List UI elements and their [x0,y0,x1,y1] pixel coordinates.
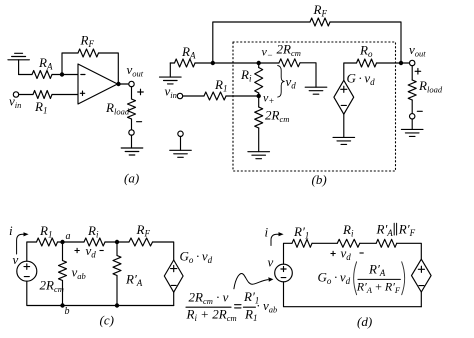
big parenthesis right (d equation) [402,262,405,295]
node v+ [257,94,261,98]
resistor R_F [78,49,99,57]
wire R'_1 to R_i [312,242,337,244]
wire R_o left to dependent source [344,63,357,80]
svg-text:RF: RF [136,222,151,239]
svg-text:R1: R1 [39,223,52,240]
svg-text:2Rcm: 2Rcm [277,42,301,59]
wire feedback riser to R_F [213,22,310,63]
svg-text:· vab: · vab [257,298,278,315]
svg-text:R1: R1 [214,77,227,94]
fraction bar (d equation) [358,278,401,280]
svg-text:2Rcm: 2Rcm [265,108,289,125]
svg-text:a: a [66,231,71,242]
svg-text:v+: v+ [263,91,274,107]
terminal (bottom of R_load b) [410,114,415,119]
resistor R_load [408,80,416,100]
dependent source (d diamond) [412,259,432,292]
svg-text:R′F: R′F [398,222,416,239]
dependent source G_o*v_d (c diamond) [164,260,183,292]
wire v_in to R_1 [183,95,204,97]
minus mark of v_d (c) [100,250,104,252]
resistor R'_1 (d) [292,239,312,247]
resistor R'_A (c) [113,242,121,306]
wire terminal to ground [180,137,182,151]
wire node up to R_F [62,53,78,75]
wire v+ down to lower 2R_cm [258,96,260,107]
wire output to v_out terminal [118,83,129,85]
plus mark of v_d (c) [75,248,80,253]
equation fraction bar (2R_cm*v / R_i+2R_cm) [186,306,231,308]
svg-text:Ri: Ri [342,222,354,239]
wire to top-right corner down to diamond [397,243,422,259]
wire R_i to mid node and R_F [105,241,129,243]
svg-text:RA: RA [38,55,53,72]
output node [399,61,403,65]
minus polarity mark [137,121,142,123]
svg-text:2Rcm · v: 2Rcm · v [189,289,229,306]
wire R_1 to non-inverting input [52,94,78,96]
minus mark of v_d (d) [360,252,364,254]
resistor R'_A parallel R'_F (d) [376,239,397,247]
resistor R_o [357,59,377,67]
ground (below diamond) [333,137,355,144]
svg-text:R1: R1 [34,99,47,116]
resistor 2R_cm (lower) [255,107,263,128]
wire v to top-left corner and R'_1 [284,243,293,264]
current arrow i (c) [17,232,29,254]
output node [116,82,120,86]
equation fraction bar (R'_1 / R_1) [243,306,255,308]
svg-text:Rload: Rload [105,100,130,117]
wire v_out to R_load [131,87,133,99]
ground (below R_A left, b) [160,63,182,84]
ground (floating reference) [170,150,192,157]
svg-text:v: v [13,252,19,267]
ground (inverted, top-left of a) [8,53,30,74]
svg-text:vout: vout [409,42,426,59]
wire R_1 to node a and R_i [58,241,85,243]
svg-text:vout: vout [127,62,144,79]
resistor R_A [175,59,196,67]
terminal v_out [410,60,415,65]
svg-text:i: i [265,225,269,240]
resistor 2R_cm (c) [59,242,67,306]
svg-text:Ri: Ri [240,67,252,84]
node v- [257,61,261,65]
wire 2R_cm lower to ground [258,128,260,152]
big parenthesis left (d equation) [354,262,357,295]
plus polarity mark [415,69,421,75]
svg-text:R′A: R′A [368,262,386,279]
wire R_load to terminal [411,100,413,114]
wire v_out to R_load [411,66,413,80]
wire v to top-left corner and R_1 [27,242,37,261]
svg-text:Ri + 2Rcm: Ri + 2Rcm [186,307,237,324]
wire R_load to terminal [131,119,133,130]
resistor R_F [310,18,330,26]
wire v- to 2R_cm [259,62,279,64]
svg-text:R1: R1 [244,307,257,324]
wire terminal to ground [131,135,133,148]
resistor R_1 [33,91,52,99]
svg-text:(a): (a) [124,171,139,186]
node (R_A / feedback junction) [211,61,215,65]
svg-text:b: b [65,306,70,317]
wire 2R_cm to ground [300,63,316,87]
svg-text:Go · vd: Go · vd [180,249,213,266]
ground (below lower 2R_cm) [248,152,270,159]
resistor R_i (c) [84,238,105,246]
node (bottom of R'_A) [115,303,119,307]
ground (below upper 2R_cm) [305,87,327,94]
wire ground to R_A [19,74,32,76]
squiggly arrow pointing to source v [234,273,274,288]
wire R_F to output [99,53,119,84]
source v (c) [17,261,37,281]
node a [60,240,64,244]
svg-text:Ro: Ro [359,43,373,60]
resistor R_i (d) [337,239,360,247]
resistor R_1 (c) [37,238,58,246]
wire diamond to bottom rail [420,292,422,307]
svg-text:R′1: R′1 [293,224,309,241]
node (junction of R_A, R_F, op-amp minus) [60,72,64,76]
dependent source G*v_d (diamond) [334,80,354,114]
resistor R_A [32,71,52,79]
svg-text:R′A: R′A [376,222,394,239]
plus mark of v_d (d) [331,251,336,256]
svg-text:(b): (b) [312,172,327,187]
wire R_F to output node [330,22,401,63]
wire R_F to top-right corner down to diamond [153,242,174,260]
wire diamond to ground [343,114,345,137]
plus polarity mark [138,89,144,95]
resistor R_1 [204,92,226,100]
svg-text:RF: RF [313,2,328,19]
terminal v_in [13,92,18,97]
node b [60,303,64,307]
circuit (c) [17,232,184,307]
brace for v_d [278,66,285,98]
ground (below R_load b) [401,129,423,136]
svg-text:v−: v− [262,45,273,61]
ground (bottom of a) [121,148,143,155]
node (R_i / R'_A / R_F junction) [115,240,119,244]
terminal v_in [177,93,182,98]
resistor 2R_cm (upper) [279,59,300,67]
svg-text:(c): (c) [100,313,114,328]
minus polarity mark [417,110,422,112]
circuit (a) [8,49,143,155]
wire R_o to output node [377,62,410,64]
svg-text:Ri: Ri [87,223,99,240]
circuit (b) [160,18,424,171]
parallel bars in R'_A||R'_F label [394,223,396,235]
svg-text:R′A: R′A [125,272,143,289]
svg-text:vd: vd [86,243,97,260]
wire ground to R_A [170,62,174,64]
source v (d) [275,264,293,282]
svg-text:R′A + R′F: R′A + R′F [356,280,401,295]
wire R_1 to v+ node [226,95,259,97]
bottom rail (c) [27,281,174,305]
terminal v_out [129,81,134,86]
op-amp U1 [78,64,118,104]
wire diamond to bottom rail [173,292,175,305]
wire v_in to R_1 [19,94,33,96]
svg-text:RA: RA [181,44,196,61]
svg-text:vab: vab [72,265,86,282]
svg-text:vd: vd [341,246,352,263]
dashed box (op-amp model boundary) [233,42,396,171]
wire terminal to ground [411,119,413,129]
resistor R_i [255,63,263,96]
op-amp plus pin mark [80,91,84,95]
bottom rail (d) [284,282,422,307]
wire R_A to inverting input [52,74,78,76]
wire R_i to R'_A||R'_F [360,242,376,244]
current arrow i (d) [271,232,284,245]
svg-text:(d): (d) [357,314,372,329]
floating reference terminal [178,131,183,136]
circuit (d) [186,223,431,308]
svg-text:vin: vin [165,84,177,101]
svg-text:G · vd: G · vd [347,71,376,88]
svg-text:i: i [9,223,13,238]
wire R_A to v- node [195,62,259,64]
resistor R_load [128,99,136,119]
svg-text:vd: vd [286,74,297,91]
svg-text:RF: RF [80,33,95,50]
terminal (bottom of R_load) [129,130,134,135]
svg-text:v: v [268,255,274,270]
resistor R_F (c) [129,238,153,246]
svg-text:Rload: Rload [418,78,443,95]
equals sign [235,305,241,308]
svg-text:Go · vd: Go · vd [318,270,351,287]
op-amp minus pin mark [81,74,85,76]
